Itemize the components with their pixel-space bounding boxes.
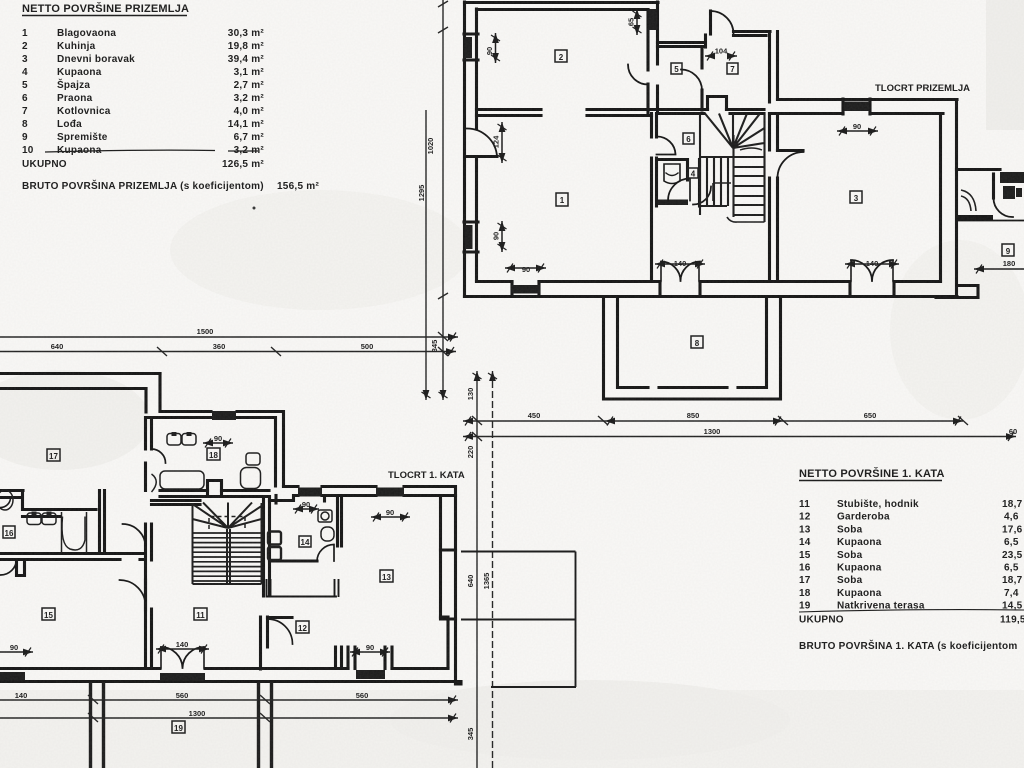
- ticks bottom: [88, 695, 270, 722]
- dim 140 french door3: [156, 648, 209, 650]
- floor wall below rooms 5/7: [652, 110, 765, 114]
- room label 9: [1002, 244, 1014, 256]
- svg-text:18,7: 18,7: [1002, 575, 1023, 586]
- south exterior wall outer line: [465, 295, 958, 298]
- svg-text:450: 450: [528, 411, 541, 420]
- svg-text:15: 15: [44, 611, 53, 620]
- room label 4: [688, 168, 698, 178]
- svg-text:30,3 m²: 30,3 m²: [228, 28, 265, 39]
- svg-text:Praona: Praona: [57, 93, 93, 104]
- svg-text:7,4: 7,4: [1004, 588, 1019, 599]
- window W2 dark: [465, 225, 473, 249]
- svg-text:560: 560: [356, 691, 369, 700]
- terrace rails below first floor: [91, 682, 272, 768]
- svg-text:Soba: Soba: [837, 575, 863, 586]
- room label 2: [555, 50, 567, 62]
- dim 140 french door1: [655, 263, 705, 265]
- praona door arc: [693, 187, 711, 205]
- door arc hall-room3: [778, 152, 804, 178]
- svg-text:6,5: 6,5: [1004, 563, 1019, 574]
- svg-text:6: 6: [22, 93, 28, 104]
- door D1 arc: [467, 128, 498, 156]
- french door FD3 arcs: [161, 647, 204, 668]
- svg-text:1300: 1300: [704, 427, 721, 436]
- SW wall jog: [17, 560, 25, 576]
- east wing north wall inner: [770, 112, 944, 115]
- svg-text:126,5 m²: 126,5 m²: [222, 159, 264, 170]
- svg-text:Kuhinja: Kuhinja: [57, 41, 96, 52]
- svg-text:5: 5: [22, 80, 28, 91]
- bath18 toilet: [246, 453, 260, 465]
- room label 14: [299, 536, 311, 547]
- room label 17: [47, 449, 60, 461]
- svg-text:16: 16: [799, 563, 811, 574]
- north exterior wall: [465, 3, 659, 10]
- appendix south wall: [936, 286, 978, 298]
- east exterior wall inner: [439, 496, 442, 618]
- svg-text:2: 2: [22, 41, 28, 52]
- left flight boundary: [700, 157, 733, 206]
- room label 12: [296, 621, 309, 633]
- hall west wall (room1 east): [652, 114, 657, 282]
- straight treads: [193, 533, 262, 581]
- svg-text:39,4 m²: 39,4 m²: [228, 54, 265, 65]
- east exterior wall: [941, 100, 957, 298]
- praona6 / wc4 partition: [657, 160, 688, 181]
- staircase first floor: [193, 503, 262, 585]
- svg-text:3: 3: [854, 194, 859, 203]
- svg-text:1295: 1295: [417, 185, 426, 202]
- corridor west wall piece: [146, 524, 152, 610]
- east wall window bays connectors: [441, 496, 456, 620]
- svg-text:11: 11: [799, 499, 810, 510]
- entrance door arc: [711, 11, 734, 34]
- kitchen east wall (room 2): [648, 2, 658, 113]
- svg-text:UKUPNO: UKUPNO: [22, 159, 67, 170]
- window W13a dark: [298, 488, 322, 497]
- ticks: [157, 332, 968, 441]
- svg-text:345: 345: [430, 340, 439, 353]
- south exterior wall outer: [0, 682, 461, 685]
- bath18 chimney notch: [208, 481, 222, 495]
- svg-text:90: 90: [10, 643, 18, 652]
- bottom dim line 2: [0, 717, 458, 719]
- arrows dim lines: [448, 333, 458, 342]
- hall east wall / room3 west: [770, 114, 778, 282]
- dim 90 room13 window: [371, 516, 410, 518]
- svg-text:Kotlovnica: Kotlovnica: [57, 106, 111, 117]
- dim 90 west window room2: [495, 33, 497, 63]
- svg-text:4,0 m²: 4,0 m²: [234, 106, 265, 117]
- loggia inner walls: [618, 297, 767, 388]
- left vertical dim line of ground floor: [442, 0, 444, 400]
- svg-text:7: 7: [730, 65, 735, 74]
- wall north of room7: [734, 32, 771, 36]
- bath10 sink: [961, 190, 976, 211]
- step wall down to bath18: [146, 374, 160, 413]
- room label 3: [850, 191, 862, 203]
- door arc into bath18: [152, 449, 166, 463]
- svg-text:9: 9: [1006, 247, 1011, 256]
- french door FD1 arcs: [661, 262, 700, 282]
- first floor dims: [0, 443, 410, 652]
- svg-text:140: 140: [15, 691, 28, 700]
- jambs south wall: [512, 282, 894, 297]
- entry door dark sill: [356, 670, 385, 679]
- chimney notch room 7: [708, 97, 727, 110]
- jamb below door room15: [146, 609, 152, 669]
- ticks on left dim: [438, 1, 448, 299]
- west exterior wall inner line: [475, 9, 478, 281]
- door arc at left wall 17: [1, 498, 11, 508]
- north exterior wall outer (left part): [0, 372, 160, 375]
- bath18 north wall: [146, 412, 283, 418]
- wc4 south wall: [658, 200, 688, 206]
- room14 west fixtures: [268, 532, 281, 545]
- svg-text:560: 560: [176, 691, 189, 700]
- dim 140 french door2: [845, 263, 899, 265]
- NE appendix window dark: [1000, 172, 1024, 183]
- corridor south wall of bath16: [0, 554, 145, 560]
- stairwell east wall: [264, 497, 270, 597]
- svg-text:60: 60: [1009, 427, 1017, 436]
- room14 toilet: [318, 510, 332, 522]
- svg-text:Kupaona: Kupaona: [837, 588, 882, 599]
- partition rooms 5/7: [700, 47, 703, 111]
- lower landing shapes: [713, 183, 765, 222]
- kitchen NE window dark: [649, 9, 658, 30]
- room labels first floor: [3, 448, 393, 733]
- svg-text:90: 90: [302, 500, 310, 509]
- svg-text:1020: 1020: [426, 138, 435, 155]
- svg-text:15: 15: [799, 550, 811, 561]
- svg-text:90: 90: [366, 643, 374, 652]
- svg-text:Soba: Soba: [837, 550, 863, 561]
- window W2 west wall: [464, 222, 478, 252]
- svg-text:6: 6: [686, 135, 691, 144]
- svg-text:140: 140: [674, 259, 687, 268]
- bottom dim line 1: [0, 699, 458, 701]
- svg-text:Garderoba: Garderoba: [837, 512, 890, 523]
- svg-text:65: 65: [627, 18, 636, 26]
- lower horizontal dim line 1 (under top plan): [463, 420, 963, 422]
- svg-text:17: 17: [799, 575, 811, 586]
- svg-text:119,5: 119,5: [1000, 615, 1024, 626]
- south exterior wall inner: [0, 667, 448, 670]
- door arc room15: [120, 580, 146, 606]
- room label 7: [727, 63, 738, 74]
- wall room5 north: [658, 43, 706, 47]
- svg-text:12: 12: [298, 624, 307, 633]
- svg-text:13: 13: [799, 524, 811, 535]
- svg-text:500: 500: [361, 342, 374, 351]
- svg-text:10: 10: [22, 145, 34, 156]
- svg-text:Lođa: Lođa: [57, 119, 82, 130]
- NE appendix top wall: [957, 168, 1001, 171]
- svg-text:Spremište: Spremište: [57, 132, 108, 143]
- bath16 east wall: [100, 491, 105, 554]
- svg-text:Kupaona: Kupaona: [57, 67, 102, 78]
- svg-text:17,6: 17,6: [1002, 524, 1023, 535]
- svg-text:2,7 m²: 2,7 m²: [234, 80, 265, 91]
- svg-text:124: 124: [492, 135, 501, 148]
- dim 90 entry door: [350, 651, 390, 653]
- svg-text:650: 650: [864, 411, 877, 420]
- dim 124 west door: [501, 122, 503, 163]
- bath16 shower: [62, 517, 85, 550]
- bath16 walls: [23, 491, 97, 517]
- window W13b dark: [376, 488, 404, 497]
- svg-text:17: 17: [49, 452, 58, 461]
- east step to bottom wall: [441, 617, 449, 667]
- svg-text:140: 140: [866, 259, 879, 268]
- room label 16: [3, 526, 15, 538]
- window W1 dark: [465, 37, 473, 58]
- svg-text:90: 90: [522, 265, 530, 274]
- svg-text:104: 104: [715, 47, 728, 56]
- room number labels ground floor: [555, 50, 1014, 348]
- fixtures NE appendix: [961, 186, 1022, 211]
- dashed landing rect: [209, 517, 245, 530]
- staircase ground floor: [700, 114, 765, 223]
- svg-text:19: 19: [174, 724, 183, 733]
- svg-text:23,5: 23,5: [1002, 550, 1023, 561]
- svg-text:90: 90: [386, 508, 394, 517]
- svg-text:BRUTO POVRŠINA 1. KATA (s koef: BRUTO POVRŠINA 1. KATA (s koeficijentom: [799, 639, 1017, 652]
- svg-text:8: 8: [22, 119, 28, 130]
- east wall of entrance block: [770, 32, 778, 103]
- dim 180 appendix: [974, 268, 1024, 270]
- room label 5: [671, 63, 682, 74]
- svg-text:8: 8: [695, 339, 700, 348]
- svg-text:90: 90: [492, 232, 501, 240]
- french door FD2 arcs: [851, 260, 893, 281]
- fixtures first floor: [0, 432, 334, 560]
- svg-text:14: 14: [799, 537, 811, 548]
- svg-text:14: 14: [301, 538, 310, 547]
- dim line B above first floor (640/360/500): [0, 351, 456, 353]
- east wing north wall outer: [778, 98, 958, 101]
- svg-text:16: 16: [5, 529, 14, 538]
- stair end line: [193, 583, 262, 585]
- room label 15: [42, 608, 55, 620]
- room label 19: [172, 721, 185, 733]
- winder treads fan: [705, 114, 765, 149]
- svg-text:90: 90: [853, 122, 861, 131]
- svg-text:1300: 1300: [189, 709, 206, 718]
- svg-text:Soba: Soba: [837, 524, 863, 535]
- svg-text:5: 5: [674, 65, 679, 74]
- legend rows first floor: [799, 499, 1024, 652]
- straight treads right flight: [734, 157, 765, 215]
- stair railing U: [267, 580, 339, 597]
- svg-text:640: 640: [51, 342, 64, 351]
- wall between bath18 and stairs: [160, 491, 269, 497]
- bath10 partition: [992, 174, 995, 198]
- svg-text:Stubište, hodnik: Stubište, hodnik: [837, 499, 919, 510]
- svg-text:2: 2: [559, 53, 564, 62]
- svg-text:1: 1: [22, 28, 28, 39]
- left vertical dim line 2 (345): [425, 110, 427, 400]
- door arc hall-room1: [657, 136, 676, 154]
- dim 90 room14: [293, 508, 319, 510]
- window W3 north wall east wing: [843, 99, 870, 114]
- svg-text:3,1 m²: 3,1 m²: [234, 67, 265, 78]
- room label 18: [207, 448, 220, 460]
- south exterior wall inner line: [477, 280, 941, 283]
- stairwell right edge: [261, 503, 263, 584]
- wall room14 west jamb: [274, 496, 277, 504]
- svg-text:4: 4: [22, 67, 28, 78]
- wc door arc: [668, 179, 690, 201]
- left flight vertical treads: [707, 157, 728, 206]
- svg-text:3: 3: [22, 54, 28, 65]
- dim 90 room15: [0, 651, 33, 653]
- room label 13: [380, 570, 393, 582]
- svg-text:Kupaona: Kupaona: [837, 537, 882, 548]
- door arc room2-room5: [628, 65, 648, 85]
- window W1 west wall: [464, 34, 478, 60]
- west exterior wall outer line: [463, 2, 466, 297]
- svg-text:TLOCRT 1. KATA: TLOCRT 1. KATA: [388, 470, 465, 481]
- east annex rectangle outline: [461, 552, 576, 688]
- bath18 sinks: [167, 434, 181, 446]
- room14 east wall: [338, 496, 342, 547]
- terrace rail right pair: [259, 682, 272, 768]
- bath10 door arc: [993, 198, 1013, 217]
- east exterior wall outer: [454, 487, 457, 685]
- room14 south wall: [270, 559, 318, 562]
- door arc room7-room5: [681, 70, 702, 91]
- svg-text:220: 220: [466, 446, 475, 459]
- room label 8: [691, 336, 703, 348]
- svg-text:Dnevni boravak: Dnevni boravak: [57, 54, 135, 65]
- wall room12 west: [261, 617, 268, 669]
- svg-text:640: 640: [466, 575, 475, 588]
- dim 65 kitchen NE window: [636, 9, 638, 35]
- east wing window dark: [844, 102, 869, 112]
- door arc corridor-bath16: [123, 524, 146, 547]
- toilet at left edge room16: [0, 490, 13, 510]
- bath18 west wall piece: [146, 418, 152, 491]
- toilet wc4: [664, 164, 680, 184]
- svg-text:UKUPNO: UKUPNO: [799, 615, 844, 626]
- dim line A above first floor (1500): [0, 336, 458, 338]
- svg-text:19: 19: [799, 601, 811, 612]
- svg-text:130: 130: [466, 388, 475, 401]
- window dark fills ground floor: [465, 9, 870, 249]
- dim 90 room3 north: [837, 130, 878, 132]
- svg-text:BRUTO POVRŠINA PRIZEMLJA (s ko: BRUTO POVRŠINA PRIZEMLJA (s koeficijento…: [22, 179, 264, 192]
- east wall of bath18 block: [276, 412, 284, 487]
- svg-text:1365: 1365: [482, 573, 491, 590]
- wall above corridor (stair side): [152, 501, 201, 505]
- window W4 south wall dark sill: [511, 285, 540, 294]
- svg-text:1500: 1500: [197, 327, 214, 336]
- door arc into room12: [268, 619, 293, 644]
- terrace rail left pair: [91, 682, 104, 768]
- window dark SW corner: [0, 672, 25, 681]
- room label 11: [194, 608, 207, 620]
- dim 90 bath18: [203, 442, 233, 444]
- svg-text:140: 140: [176, 640, 189, 649]
- entrance door leaf: [709, 11, 712, 34]
- central stringer: [227, 529, 230, 584]
- svg-text:19,8 m²: 19,8 m²: [228, 41, 265, 52]
- partition room2/room1: [477, 110, 652, 116]
- svg-text:6,5: 6,5: [1004, 537, 1019, 548]
- dim 104 entrance: [705, 55, 737, 57]
- bath18 tub: [160, 471, 204, 489]
- entry door jambs south: [348, 647, 392, 669]
- direction line: [740, 148, 762, 150]
- room14 door arc: [317, 544, 334, 561]
- svg-text:18,7: 18,7: [1002, 499, 1023, 510]
- svg-text:Kupaona: Kupaona: [837, 563, 882, 574]
- svg-text:4,6: 4,6: [1004, 512, 1019, 523]
- svg-text:156,5 m²: 156,5 m²: [277, 181, 319, 192]
- winder fan treads: [193, 503, 262, 529]
- french door FD3 dark sill: [160, 673, 205, 681]
- middle vertical dim line 2 (dashed): [492, 371, 494, 768]
- svg-text:850: 850: [687, 411, 700, 420]
- svg-text:Špajza: Špajza: [57, 78, 90, 91]
- svg-text:4: 4: [691, 170, 696, 179]
- room label 1: [556, 193, 568, 206]
- wc4 east wall: [698, 160, 701, 207]
- svg-text:14,1 m²: 14,1 m²: [228, 119, 265, 130]
- dim 90 west window room1: [501, 221, 503, 252]
- svg-text:18: 18: [209, 451, 218, 460]
- middle vertical dim line 1: [476, 371, 478, 768]
- svg-text:90: 90: [214, 434, 222, 443]
- svg-text:NETTO POVRŠINE PRIZEMLJA: NETTO POVRŠINE PRIZEMLJA: [22, 2, 189, 15]
- legend rows ground floor: [22, 28, 319, 192]
- legend title NETTO POVRSINE 1. KATA: [799, 467, 945, 481]
- svg-text:18: 18: [799, 588, 811, 599]
- svg-text:345: 345: [466, 728, 475, 741]
- svg-text:NETTO POVRŠINE 1. KATA: NETTO POVRŠINE 1. KATA: [799, 467, 945, 480]
- corridor sink quarter: [152, 474, 157, 492]
- lower horizontal dim line 2: [463, 436, 1016, 438]
- svg-text:12: 12: [799, 512, 811, 523]
- door D1 west wall leaf: [465, 155, 497, 158]
- svg-text:9: 9: [22, 132, 28, 143]
- legend title NETTO POVRSINE PRIZEMLJA: [22, 2, 189, 16]
- entrance jamb: [704, 35, 707, 47]
- bottom dimension lines: [0, 695, 458, 722]
- svg-text:90: 90: [485, 47, 494, 55]
- svg-text:13: 13: [382, 573, 391, 582]
- svg-text:1: 1: [560, 196, 565, 205]
- svg-text:TLOCRT PRIZEMLJA: TLOCRT PRIZEMLJA: [875, 83, 970, 94]
- svg-text:180: 180: [1003, 259, 1016, 268]
- svg-text:3,2 m²: 3,2 m²: [234, 93, 265, 104]
- north wall east part (rooms 14/13): [270, 487, 456, 502]
- svg-text:360: 360: [213, 342, 226, 351]
- bath16 sinks: [27, 513, 41, 525]
- dim 90 south window room1: [505, 267, 546, 269]
- svg-text:7: 7: [22, 106, 28, 117]
- window dark bath18: [212, 411, 236, 420]
- room14 toilet: [321, 527, 334, 541]
- stair outline: [700, 114, 765, 223]
- svg-text:Blagovaona: Blagovaona: [57, 28, 116, 39]
- balcony inner line: [957, 220, 1024, 222]
- door arc SW room: [1, 559, 17, 575]
- loggia outer walls: [604, 297, 781, 400]
- svg-text:6,7 m²: 6,7 m²: [234, 132, 265, 143]
